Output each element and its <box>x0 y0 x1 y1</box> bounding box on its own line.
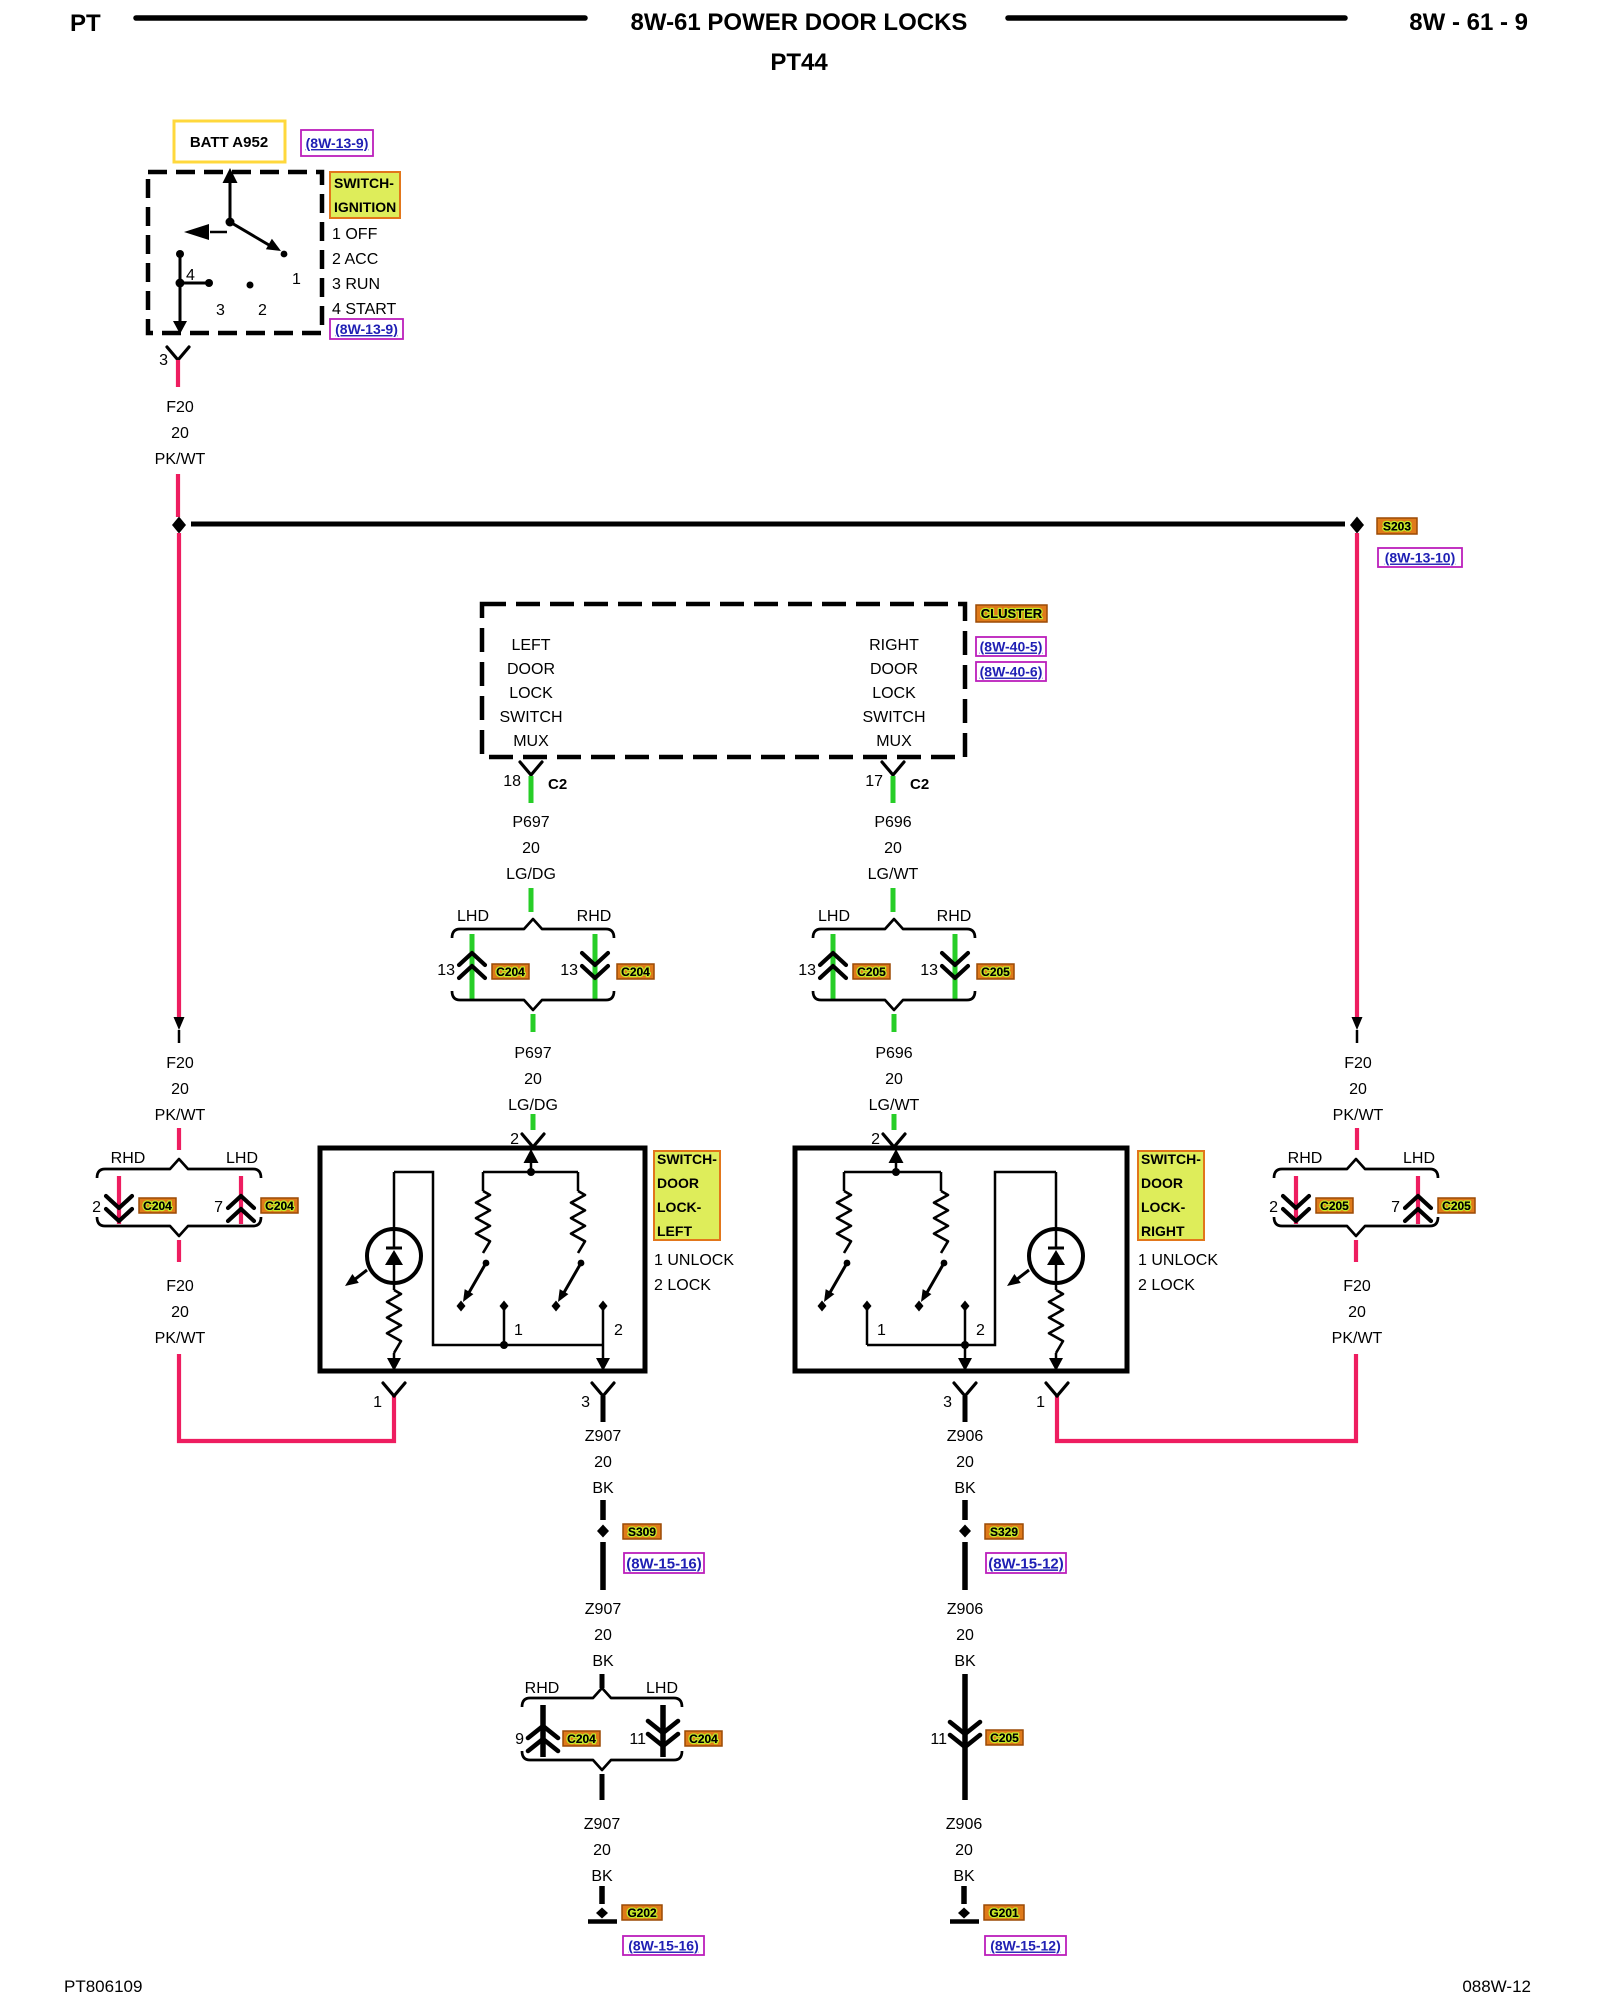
svg-text:IGNITION: IGNITION <box>334 199 396 215</box>
svg-text:3 RUN: 3 RUN <box>332 276 380 293</box>
svg-text:20: 20 <box>884 840 902 857</box>
svg-text:PK/WT: PK/WT <box>1333 1107 1384 1124</box>
svg-text:C204: C204 <box>621 965 650 979</box>
svg-text:RHD: RHD <box>577 908 612 925</box>
svg-text:LHD: LHD <box>457 908 489 925</box>
svg-text:LHD: LHD <box>1403 1150 1435 1167</box>
svg-text:1 UNLOCK: 1 UNLOCK <box>654 1252 734 1269</box>
svg-text:MUX: MUX <box>513 733 549 750</box>
svg-text:1: 1 <box>1036 1394 1045 1411</box>
svg-text:F20: F20 <box>166 1278 194 1295</box>
svg-text:BK: BK <box>953 1868 975 1885</box>
svg-text:Z906: Z906 <box>946 1816 983 1833</box>
svg-text:20: 20 <box>522 840 540 857</box>
svg-text:20: 20 <box>885 1071 903 1088</box>
svg-text:2: 2 <box>92 1199 101 1216</box>
svg-text:LOCK-: LOCK- <box>1141 1199 1186 1215</box>
svg-text:PT44: PT44 <box>770 49 828 76</box>
svg-text:20: 20 <box>1349 1081 1367 1098</box>
svg-text:C205: C205 <box>1442 1199 1471 1213</box>
svg-text:F20: F20 <box>1344 1055 1372 1072</box>
svg-text:20: 20 <box>594 1627 612 1644</box>
svg-text:2 LOCK: 2 LOCK <box>1138 1277 1195 1294</box>
svg-text:SWITCH: SWITCH <box>499 709 562 726</box>
svg-text:4 START: 4 START <box>332 301 397 318</box>
svg-text:20: 20 <box>955 1842 973 1859</box>
svg-text:Z907: Z907 <box>584 1816 621 1833</box>
svg-text:2: 2 <box>976 1322 985 1339</box>
svg-text:20: 20 <box>956 1454 974 1471</box>
svg-text:3: 3 <box>216 302 225 319</box>
svg-text:PK/WT: PK/WT <box>155 1107 206 1124</box>
svg-text:20: 20 <box>1348 1304 1366 1321</box>
svg-text:20: 20 <box>171 1304 189 1321</box>
svg-text:LG/WT: LG/WT <box>868 866 919 883</box>
svg-text:C205: C205 <box>990 1731 1019 1745</box>
svg-text:PT806109: PT806109 <box>64 1977 142 1996</box>
svg-text:BK: BK <box>592 1653 614 1670</box>
svg-text:1 OFF: 1 OFF <box>332 226 378 243</box>
svg-text:20: 20 <box>956 1627 974 1644</box>
svg-text:(8W-40-6): (8W-40-6) <box>980 664 1043 680</box>
svg-text:LHD: LHD <box>818 908 850 925</box>
svg-text:LOCK: LOCK <box>509 685 553 702</box>
svg-text:SWITCH-: SWITCH- <box>1141 1151 1201 1167</box>
svg-text:18: 18 <box>503 773 521 790</box>
svg-text:LOCK-: LOCK- <box>657 1199 702 1215</box>
svg-text:SWITCH: SWITCH <box>862 709 925 726</box>
svg-text:G202: G202 <box>627 1906 657 1920</box>
svg-text:C205: C205 <box>981 965 1010 979</box>
svg-text:PK/WT: PK/WT <box>155 1330 206 1347</box>
svg-text:S329: S329 <box>990 1525 1018 1539</box>
svg-text:20: 20 <box>524 1071 542 1088</box>
svg-text:LG/DG: LG/DG <box>506 866 556 883</box>
svg-text:C205: C205 <box>1320 1199 1349 1213</box>
svg-text:2 ACC: 2 ACC <box>332 251 378 268</box>
svg-text:7: 7 <box>1391 1199 1400 1216</box>
svg-text:LHD: LHD <box>226 1150 258 1167</box>
svg-text:11: 11 <box>629 1731 646 1748</box>
svg-text:088W-12: 088W-12 <box>1462 1977 1531 1996</box>
svg-text:C204: C204 <box>689 1732 718 1746</box>
svg-text:DOOR: DOOR <box>870 661 918 678</box>
svg-text:C204: C204 <box>265 1199 294 1213</box>
svg-text:PT: PT <box>70 10 101 37</box>
svg-text:LG/DG: LG/DG <box>508 1097 558 1114</box>
svg-text:13: 13 <box>560 962 578 979</box>
svg-text:1: 1 <box>373 1394 382 1411</box>
svg-text:F20: F20 <box>1343 1278 1371 1295</box>
svg-text:2: 2 <box>871 1131 880 1148</box>
svg-text:MUX: MUX <box>876 733 912 750</box>
svg-text:8W - 61 - 9: 8W - 61 - 9 <box>1409 9 1528 36</box>
svg-text:2: 2 <box>1269 1199 1278 1216</box>
svg-text:Z906: Z906 <box>947 1428 984 1445</box>
svg-text:CLUSTER: CLUSTER <box>981 606 1043 621</box>
svg-text:11: 11 <box>930 1731 947 1748</box>
svg-text:(8W-15-12): (8W-15-12) <box>990 1938 1061 1954</box>
svg-text:C204: C204 <box>143 1199 172 1213</box>
svg-text:P696: P696 <box>874 814 911 831</box>
svg-text:DOOR: DOOR <box>507 661 555 678</box>
svg-text:13: 13 <box>798 962 816 979</box>
svg-text:1 UNLOCK: 1 UNLOCK <box>1138 1252 1218 1269</box>
svg-text:DOOR: DOOR <box>657 1175 699 1191</box>
svg-text:(8W-40-5): (8W-40-5) <box>980 639 1043 655</box>
svg-text:7: 7 <box>214 1199 223 1216</box>
svg-text:3: 3 <box>581 1394 590 1411</box>
svg-text:13: 13 <box>437 962 455 979</box>
svg-text:17: 17 <box>865 773 883 790</box>
svg-text:RHD: RHD <box>1288 1150 1323 1167</box>
svg-text:LOCK: LOCK <box>872 685 916 702</box>
svg-text:SWITCH-: SWITCH- <box>334 175 394 191</box>
svg-text:DOOR: DOOR <box>1141 1175 1183 1191</box>
svg-text:BK: BK <box>954 1653 976 1670</box>
svg-text:1: 1 <box>514 1322 523 1339</box>
svg-text:PK/WT: PK/WT <box>1332 1330 1383 1347</box>
svg-text:LEFT: LEFT <box>511 637 550 654</box>
svg-text:4: 4 <box>186 267 195 284</box>
svg-text:P697: P697 <box>512 814 549 831</box>
svg-text:PK/WT: PK/WT <box>155 451 206 468</box>
svg-text:3: 3 <box>159 352 168 369</box>
svg-text:20: 20 <box>594 1454 612 1471</box>
svg-text:20: 20 <box>171 425 189 442</box>
svg-text:20: 20 <box>171 1081 189 1098</box>
svg-text:2: 2 <box>510 1131 519 1148</box>
svg-text:LEFT: LEFT <box>657 1223 692 1239</box>
svg-text:(8W-13-9): (8W-13-9) <box>306 135 369 151</box>
svg-text:9: 9 <box>515 1731 524 1748</box>
svg-text:S203: S203 <box>1383 519 1411 533</box>
svg-text:(8W-15-12): (8W-15-12) <box>988 1555 1064 1572</box>
svg-text:1: 1 <box>877 1322 886 1339</box>
svg-text:G201: G201 <box>989 1906 1019 1920</box>
svg-text:P697: P697 <box>514 1045 551 1062</box>
svg-text:P696: P696 <box>875 1045 912 1062</box>
svg-text:SWITCH-: SWITCH- <box>657 1151 717 1167</box>
svg-text:BK: BK <box>592 1480 614 1497</box>
svg-text:RIGHT: RIGHT <box>1141 1223 1185 1239</box>
svg-text:3: 3 <box>943 1394 952 1411</box>
svg-text:BATT A952: BATT A952 <box>190 134 268 151</box>
svg-text:(8W-13-10): (8W-13-10) <box>1385 550 1456 566</box>
svg-text:C204: C204 <box>496 965 525 979</box>
svg-text:RHD: RHD <box>111 1150 146 1167</box>
svg-text:LG/WT: LG/WT <box>869 1097 920 1114</box>
svg-text:C204: C204 <box>567 1732 596 1746</box>
svg-text:RHD: RHD <box>937 908 972 925</box>
svg-text:C2: C2 <box>548 776 567 793</box>
svg-text:2 LOCK: 2 LOCK <box>654 1277 711 1294</box>
svg-text:13: 13 <box>920 962 938 979</box>
svg-text:Z907: Z907 <box>585 1601 622 1618</box>
svg-text:(8W-15-16): (8W-15-16) <box>628 1938 699 1954</box>
svg-text:BK: BK <box>954 1480 976 1497</box>
svg-text:20: 20 <box>593 1842 611 1859</box>
svg-text:(8W-15-16): (8W-15-16) <box>626 1555 702 1572</box>
svg-text:C2: C2 <box>910 776 929 793</box>
svg-text:RHD: RHD <box>525 1680 560 1697</box>
svg-text:(8W-13-9): (8W-13-9) <box>335 321 398 337</box>
svg-text:2: 2 <box>614 1322 623 1339</box>
svg-text:F20: F20 <box>166 399 194 416</box>
svg-text:1: 1 <box>292 271 301 288</box>
svg-text:S309: S309 <box>628 1525 656 1539</box>
svg-text:2: 2 <box>258 302 267 319</box>
svg-text:Z906: Z906 <box>947 1601 984 1618</box>
svg-text:Z907: Z907 <box>585 1428 622 1445</box>
svg-text:C205: C205 <box>857 965 886 979</box>
svg-text:BK: BK <box>591 1868 613 1885</box>
svg-text:LHD: LHD <box>646 1680 678 1697</box>
svg-text:RIGHT: RIGHT <box>869 637 919 654</box>
svg-text:F20: F20 <box>166 1055 194 1072</box>
svg-text:8W-61 POWER DOOR LOCKS: 8W-61 POWER DOOR LOCKS <box>631 9 968 36</box>
